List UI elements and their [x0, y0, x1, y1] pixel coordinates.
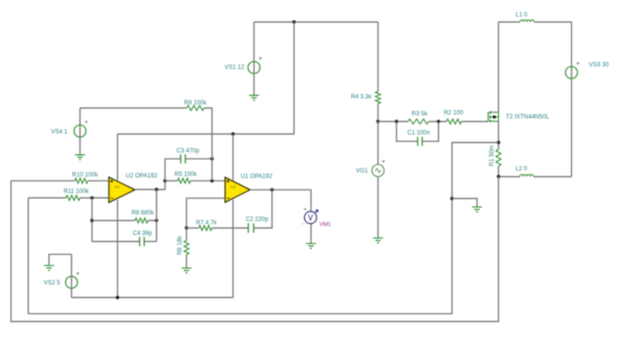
resistor R6 [184, 241, 189, 255]
svg-text:L2 0: L2 0 [515, 167, 527, 173]
op-amp U1 OPA192 [225, 177, 250, 202]
label VS3 30 [589, 63, 609, 69]
label U2 OPA192 [126, 174, 158, 180]
svg-text:+: + [259, 57, 263, 63]
voltage source VS2 [66, 271, 81, 288]
wire R8 right lead [148, 220, 157, 222]
wire U1 +V pin [232, 134, 234, 182]
wire U1 output [250, 190, 311, 212]
wire R7 to C2 [212, 227, 248, 229]
svg-text:R8 680k: R8 680k [132, 210, 155, 216]
transistor T2 IXTN44N50L [488, 111, 498, 122]
svg-text:+V: +V [230, 185, 237, 190]
wire source to ground column [28, 143, 498, 314]
svg-text:R1 50m: R1 50m [489, 145, 495, 166]
label R9 100k [184, 100, 207, 106]
wire R1 bottom lead [498, 166, 500, 177]
svg-text:R6 18k: R6 18k [178, 235, 184, 255]
wire gate row seg1 [378, 121, 408, 123]
svg-text:R7 4.7k: R7 4.7k [196, 220, 218, 226]
node R5 right junction [210, 179, 213, 182]
wire VS2 lead [71, 254, 73, 297]
wire L2 right lead [534, 176, 572, 178]
svg-text:C3 470p: C3 470p [177, 148, 200, 154]
wire L1 right lead [534, 21, 572, 23]
node ground tap [450, 197, 453, 200]
svg-text:VM1: VM1 [320, 222, 332, 228]
wire U2 -V pin [117, 200, 119, 298]
wire VG1 top lead [377, 122, 379, 165]
svg-text:R9 100k: R9 100k [184, 100, 207, 106]
resistor R8 [135, 218, 148, 223]
inductor L2 [520, 174, 534, 176]
label VS4 1 [51, 129, 68, 135]
node U2 output junction [155, 188, 158, 191]
wire R10 row left [11, 180, 75, 182]
svg-text:R4 3.3k: R4 3.3k [351, 95, 373, 101]
label R11 100k [64, 189, 90, 195]
wire R11 junction column [91, 198, 93, 242]
svg-text:L1 0: L1 0 [516, 13, 528, 19]
node top-rail junction [292, 20, 295, 23]
wire R4 bottom lead [377, 104, 379, 122]
wire L2 left lead [499, 176, 520, 178]
label R10 100k [72, 172, 99, 178]
label R7 4.7k [196, 220, 218, 226]
wire L1 left lead [499, 21, 521, 23]
wire top rail VS1 to R4 [254, 21, 378, 23]
wire ground stub [452, 199, 477, 208]
svg-text:+: + [304, 207, 307, 213]
node U1 output junction [270, 188, 273, 191]
node C3 right junction [210, 157, 213, 160]
ground below VM1 [306, 244, 316, 249]
wire R6 bottom lead [186, 255, 188, 268]
resistor R11 [66, 195, 80, 200]
svg-text:+: + [382, 160, 386, 166]
wire T2 drain column [498, 22, 500, 112]
wire VS1 lead [253, 22, 255, 95]
label R4 3.3k [351, 95, 373, 101]
node R3 right [437, 120, 440, 123]
svg-text:R3 5k: R3 5k [412, 111, 429, 117]
node R1-L2 junction [497, 175, 500, 178]
node source junction [497, 141, 500, 144]
svg-text:R2 100: R2 100 [444, 111, 464, 117]
svg-text:VG1: VG1 [356, 169, 369, 175]
resistor R3 [408, 119, 429, 124]
wire VS4 lead [79, 108, 81, 155]
label C4 39p [133, 231, 153, 237]
resistor R2 [447, 119, 462, 124]
svg-text:C2 220p: C2 220p [246, 217, 269, 223]
svg-text:V: V [308, 214, 314, 223]
wire R11 row left [28, 197, 66, 199]
svg-text:VS3 30: VS3 30 [589, 63, 609, 69]
wire U2 +V pin [117, 134, 119, 181]
label R6 18k [178, 235, 184, 255]
meter VM1 [302, 207, 318, 227]
svg-text:VS4 1: VS4 1 [51, 129, 68, 135]
wire U2 out column [156, 190, 158, 242]
node T2 body dot [493, 115, 496, 118]
generator VG1 [372, 160, 386, 177]
label R3 5k [412, 111, 429, 117]
svg-text:R5 100k: R5 100k [175, 172, 198, 178]
wire R4 top lead [377, 22, 379, 92]
wire C4 right lead [144, 241, 156, 243]
resistor R10 [75, 178, 88, 183]
label R5 100k [175, 172, 198, 178]
label VS1 12 [225, 65, 245, 71]
node R8 left junction [90, 219, 93, 222]
label VG1 [356, 169, 369, 175]
op-amp U2 OPA192 [109, 177, 135, 202]
resistor R5 [178, 178, 191, 183]
svg-text:U2 OPA192: U2 OPA192 [126, 174, 158, 180]
svg-text:+: + [85, 120, 89, 126]
label U1 OPA192 [241, 174, 273, 180]
svg-text:R10 100k: R10 100k [72, 172, 99, 178]
node U2 inverting junction [90, 196, 93, 199]
svg-text:C4 39p: C4 39p [133, 231, 153, 237]
label R2 100 [444, 111, 464, 117]
capacitor C3 [181, 154, 186, 163]
ground near T2 source [472, 207, 482, 212]
label R1 50m [489, 145, 495, 166]
wire R5 right lead [191, 180, 226, 182]
node U1 +V tap [231, 132, 234, 135]
wire +V column x294 [118, 22, 295, 134]
wire VM1 bottom lead [310, 224, 312, 244]
wire U1 -V pin [72, 200, 234, 298]
resistor R9 [187, 106, 204, 111]
svg-text:U1 OPA192: U1 OPA192 [241, 174, 273, 180]
wire R11 row right [80, 197, 109, 199]
ground above VS2 [44, 266, 54, 271]
ground below VS4 [75, 155, 85, 160]
resistor R7 [199, 226, 212, 231]
wire VS2 top to ground [49, 254, 72, 265]
svg-text:+: + [76, 271, 80, 277]
wire R7 left lead [187, 227, 199, 229]
wire outer feedback loop [11, 177, 499, 322]
voltage source VS1 [248, 57, 263, 74]
wire R6 top lead [186, 228, 188, 241]
node R3 left [395, 120, 398, 123]
wire VG1 bottom lead [377, 177, 379, 239]
wire U1 inverting lead [187, 198, 226, 228]
wire C1 right leg [422, 122, 438, 142]
wire C3 left leg [165, 159, 181, 181]
label T2 IXTN44N50L [506, 115, 550, 121]
label C3 470p [177, 148, 200, 154]
wire gate row seg3 [462, 121, 489, 123]
capacitor C2 [248, 223, 253, 233]
node R6-R7 junction [185, 226, 188, 229]
node gate-drive junction [376, 120, 379, 123]
resistor R4 [376, 92, 381, 104]
wire VS3 column [571, 22, 573, 177]
svg-text:VS2 5: VS2 5 [44, 281, 61, 287]
wire VS4 to R9 [80, 107, 187, 109]
node R5-C3 left junction [163, 179, 166, 182]
svg-text:VS1 12: VS1 12 [225, 65, 245, 71]
wire R8 left lead [92, 220, 135, 222]
svg-text:T2 IXTN44N50L: T2 IXTN44N50L [506, 115, 550, 121]
ground below R6 [182, 268, 192, 273]
ground below VS1 [249, 95, 259, 100]
wire R5 left lead [165, 180, 178, 182]
voltage source VS3 [566, 62, 581, 79]
wire R9 to column [204, 108, 212, 181]
label L2 0 [515, 167, 527, 173]
wire C4 left lead [92, 241, 140, 243]
wire R10 row right [88, 180, 109, 182]
label C1 100n [407, 131, 430, 137]
svg-text:C1 100n: C1 100n [407, 131, 430, 137]
inductor L1 [520, 20, 534, 22]
label VS2 5 [44, 281, 61, 287]
label VM1 [320, 222, 332, 228]
svg-text:+: + [576, 62, 580, 68]
svg-text:+V: +V [114, 185, 121, 190]
label L1 0 [516, 13, 528, 19]
label R8 680k [132, 210, 155, 216]
node -V rail junction [116, 296, 119, 299]
node R8 right junction [155, 219, 158, 222]
voltage source VS4 [74, 120, 89, 137]
capacitor C1 [418, 137, 423, 146]
capacitor C4 [140, 237, 145, 246]
ground below VG1 [373, 238, 383, 243]
label C2 220p [246, 217, 269, 223]
wire C1 left leg [397, 122, 418, 142]
wire gate row seg2 [429, 121, 447, 123]
resistor R1 [496, 150, 501, 167]
wire U2 output [135, 181, 165, 190]
wire C3 right leg [185, 158, 212, 160]
svg-text:R11 100k: R11 100k [64, 189, 90, 195]
wire C2 right leg [254, 190, 272, 228]
wire T2 source lead [498, 121, 500, 149]
